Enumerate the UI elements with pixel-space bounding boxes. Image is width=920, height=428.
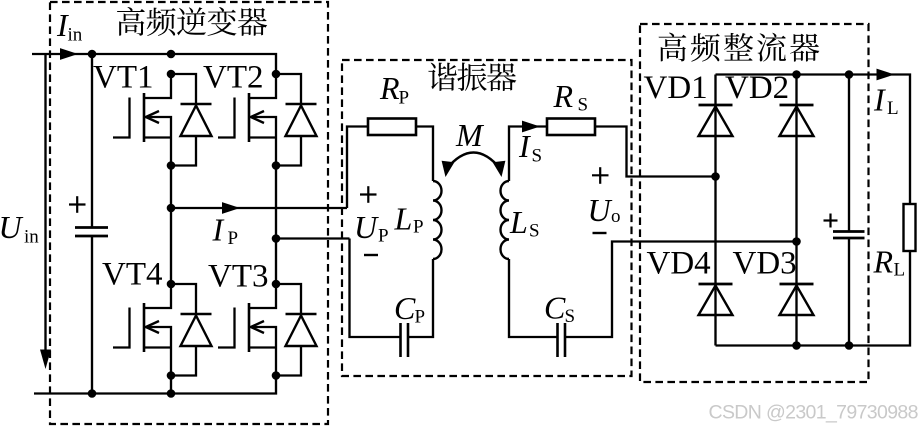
label I_P: [212, 212, 239, 250]
wire: R_P to L_P top: [416, 127, 433, 182]
wire: rectifier top rail (to R_L top): [716, 75, 911, 205]
svg-text:R: R: [379, 70, 400, 106]
junction node: bottom rail / VD3: [792, 341, 801, 350]
capacitor C_P plates: [401, 323, 409, 357]
wire: rectifier bottom rail to R_L bottom: [716, 251, 911, 346]
label R_L: [873, 244, 906, 281]
svg-text:VT4: VT4: [102, 257, 163, 293]
arrow: U_in polarity (down): [40, 350, 51, 370]
svg-text:L: L: [509, 204, 528, 240]
svg-text:R: R: [553, 78, 574, 114]
arrow: I_in current direction: [60, 48, 78, 60]
svg-text:U: U: [588, 192, 613, 228]
wire: VD1-VD4 bridge leg: [714, 75, 716, 346]
svg-text:S: S: [529, 221, 540, 242]
label VT3: [208, 259, 269, 295]
title: 谐振器 (resonator): [428, 63, 516, 92]
wire: left branch to input capacitor: [91, 54, 93, 228]
wire: L_P bottom to C_P: [408, 259, 433, 337]
filter capacitor plates: [833, 232, 865, 239]
label VT2: [203, 60, 264, 96]
arrow: I_S current direction: [522, 121, 540, 133]
svg-text:M: M: [455, 117, 485, 153]
wire: U_in sense arrow line: [44, 55, 46, 352]
transistor VT4 (MOSFET with body diode): [113, 280, 212, 380]
arrow: I_L current direction: [877, 69, 895, 81]
label VT4: [102, 257, 163, 293]
svg-text:C: C: [544, 290, 566, 326]
plus sign of filter capacitor: [824, 214, 838, 228]
wire: VD2-VD3 bridge leg: [795, 75, 797, 346]
resistor R_S (secondary): [547, 119, 595, 136]
label C_S: [544, 290, 575, 328]
label L_S: [509, 204, 540, 242]
transistor VT2 (MOSFET with body diode): [218, 70, 317, 170]
svg-text:P: P: [415, 307, 426, 328]
inductor L_S secondary coil: [501, 181, 510, 259]
label R_S: [553, 78, 589, 116]
wire: C_S to rectifier - terminal: [565, 242, 797, 338]
svg-text:VT3: VT3: [208, 259, 269, 295]
wire: bottom rail: [34, 376, 276, 394]
wire: L_S bottom to C_S: [509, 259, 558, 337]
dashed box: high-frequency rectifier block: [640, 24, 869, 382]
svg-text:R: R: [873, 244, 894, 280]
label M: [455, 117, 485, 153]
junction node: top rail / filter capacitor: [845, 70, 854, 79]
svg-text:P: P: [399, 88, 410, 109]
svg-text:L: L: [394, 201, 413, 237]
dashed box: high-frequency inverter block: [50, 2, 328, 424]
diode VD2: [780, 105, 814, 136]
svg-text:VD4: VD4: [647, 246, 711, 282]
junction node: bottom rail / filter capacitor: [845, 341, 854, 350]
mutual coupling M arc with arrowheads: [442, 153, 506, 178]
wire: filter capacitor bottom feed: [848, 238, 850, 346]
junction node: top rail / capacitor branch: [88, 50, 97, 59]
svg-text:L: L: [894, 260, 906, 281]
title: 高频整流器 (high-frequency rectifier): [659, 33, 820, 62]
svg-text:in: in: [68, 25, 83, 46]
svg-text:VD1: VD1: [644, 70, 708, 106]
label I_S: [518, 128, 542, 167]
capacitor: DC-link input capacitor plates: [75, 228, 108, 237]
svg-text:VD3: VD3: [733, 246, 797, 282]
junction node: top rail / VT1 drain: [167, 50, 176, 59]
svg-text:U: U: [354, 209, 379, 245]
junction node: rectifier + input: [711, 172, 720, 181]
junction node: rectifier - input: [792, 237, 801, 246]
svg-text:I: I: [518, 128, 531, 164]
wire: output lead B to resonator: [276, 237, 350, 239]
title: 高频逆变器 (high-frequency inverter): [117, 7, 267, 36]
plus sign of U_P polarity: [360, 186, 377, 203]
svg-text:in: in: [24, 227, 39, 248]
wire: DC input top rail: [32, 54, 276, 74]
polarity plus sign of input capacitor: [69, 196, 86, 213]
svg-text:I: I: [212, 212, 225, 248]
svg-text:VT2: VT2: [203, 60, 264, 96]
svg-text:S: S: [565, 306, 576, 327]
wire: primary left riser (node A up to R_P): [347, 127, 368, 209]
wire: node A down to VT4 drain: [170, 208, 172, 284]
label VT1: [93, 60, 154, 96]
label L_P: [394, 201, 424, 238]
label U_P: [354, 209, 389, 247]
minus sign of U_o polarity: [593, 232, 607, 234]
label VD4: [647, 246, 711, 282]
svg-text:S: S: [532, 146, 543, 167]
resistor R_P (primary): [368, 119, 416, 136]
minus sign of U_P polarity: [364, 254, 378, 256]
svg-text:VD2: VD2: [725, 70, 789, 106]
junction node: top rail / VD2: [792, 70, 801, 79]
svg-text:U: U: [0, 209, 24, 245]
svg-text:I: I: [873, 82, 886, 118]
wire: input capacitor to bottom rail: [91, 236, 93, 394]
label I_in: [56, 7, 83, 46]
diode VD3: [780, 284, 814, 315]
wire: C_P to primary left bottom riser: [350, 239, 401, 338]
svg-text:P: P: [413, 217, 424, 238]
svg-text:S: S: [578, 95, 589, 116]
svg-text:C: C: [394, 290, 416, 326]
inductor L_P primary coil: [433, 181, 442, 259]
svg-text:VT1: VT1: [93, 60, 154, 96]
svg-text:P: P: [228, 228, 239, 249]
load resistor R_L: [904, 204, 916, 251]
dashed box: resonator block: [342, 60, 632, 376]
label VD3: [733, 246, 797, 282]
wire: VT2 source to node B: [275, 166, 277, 239]
transistor VT1 (MOSFET with body diode): [113, 70, 212, 170]
capacitor C_S plates: [558, 323, 566, 357]
wire: filter capacitor top feed: [848, 75, 850, 232]
wire: VT1 source to node A: [170, 166, 172, 209]
svg-text:CSDN @2301_79730988: CSDN @2301_79730988: [709, 402, 919, 424]
transistor VT3 (MOSFET with body diode): [218, 280, 317, 380]
diode VD1: [699, 105, 733, 136]
label U_in: [0, 209, 39, 248]
junction node B: VT2-VT3 midpoint: [272, 234, 281, 243]
arrow: I_P current direction: [222, 202, 240, 214]
svg-text:o: o: [611, 206, 621, 227]
junction node: bottom rail / capacitor branch: [88, 389, 97, 398]
svg-text:L: L: [887, 98, 899, 119]
wire: VT4 source to bottom rail: [170, 376, 172, 394]
wire: node B down to VT3 drain: [275, 239, 277, 285]
label C_P: [394, 290, 425, 328]
label R_P: [379, 70, 409, 109]
diode VD4: [699, 284, 733, 315]
label VD1: [644, 70, 708, 106]
wire: output lead A (I_P) to resonator: [171, 207, 347, 209]
wire: R_S to rectifier + terminal: [595, 127, 716, 177]
svg-text:P: P: [378, 226, 389, 247]
label I_L: [873, 82, 899, 120]
plus sign of U_o polarity: [592, 167, 609, 184]
label U_o: [588, 192, 621, 228]
junction node: bottom rail / VT4 source: [167, 389, 176, 398]
label VD2: [725, 70, 789, 106]
wire: L_S top to R_S: [509, 127, 547, 182]
junction node A: VT1-VT4 midpoint: [167, 204, 176, 213]
